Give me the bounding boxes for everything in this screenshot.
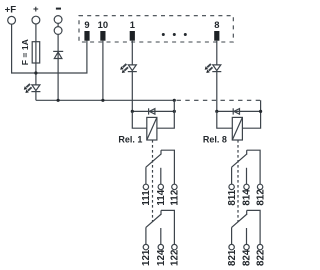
terminal 8 pad [214, 31, 219, 41]
wire terminal 10 down [102, 41, 104, 101]
svg-text:111: 111 [141, 190, 152, 206]
contact set 12x (Rel.1 CO contact 2) [143, 210, 177, 249]
svg-text:F = 1A: F = 1A [20, 39, 30, 65]
svg-text:812: 812 [255, 189, 266, 206]
terminal circle +F [8, 16, 16, 24]
terminal circle + [32, 16, 40, 24]
node diode8 / bus drop [259, 110, 262, 113]
svg-text:824: 824 [242, 249, 253, 266]
terminal 9 pad [84, 31, 89, 41]
LED indicator supply [24, 84, 41, 93]
node terminal1 / diode [131, 110, 134, 113]
wire LED supply to bus [35, 92, 37, 101]
svg-text:822: 822 [255, 249, 266, 266]
svg-text:Rel. 8: Rel. 8 [203, 134, 227, 144]
wire terminal 1 down [131, 41, 133, 65]
wire LED1 to rail [131, 72, 133, 112]
wire +F down [12, 24, 87, 73]
node diode to bus [57, 99, 60, 102]
dashed module box [79, 16, 233, 42]
wire terminal 8 down [216, 41, 218, 65]
terminal 1 pad [130, 31, 135, 41]
bus continuation dashed [177, 99, 261, 101]
svg-text:821: 821 [227, 249, 238, 266]
svg-text:10: 10 [98, 19, 108, 30]
wire LED8 down [216, 72, 218, 112]
negative bus wire [36, 99, 174, 101]
diode V1 (reverse protection) [53, 51, 63, 58]
svg-text:814: 814 [242, 189, 253, 206]
svg-text:811: 811 [227, 189, 238, 205]
svg-text:+: + [33, 4, 39, 15]
wire to coil 1 right [157, 100, 174, 128]
wire to coil 1 left [132, 111, 147, 128]
wire + down to fuse [35, 24, 37, 85]
LED indicator for channel 1 [120, 64, 137, 73]
svg-text:9: 9 [84, 19, 89, 30]
node terminal 10 to bus [101, 99, 104, 102]
node diode / bus drop [173, 110, 176, 113]
svg-text:1: 1 [130, 19, 135, 30]
terminal 10 pad [100, 31, 105, 41]
svg-text:+F: +F [5, 5, 17, 16]
ellipsis dots [162, 33, 165, 36]
mechanical link relay 1 [152, 140, 154, 222]
svg-text:112: 112 [170, 189, 181, 205]
relay coil Rel.8 [232, 117, 242, 140]
terminal circle - upper [54, 16, 62, 24]
svg-text:124: 124 [156, 249, 167, 266]
wire between - circles [57, 23, 59, 26]
svg-text:114: 114 [156, 189, 167, 205]
node terminal8 / diode [215, 110, 218, 113]
freewheel diode relay 8 [217, 108, 261, 114]
terminal - label [56, 8, 61, 10]
svg-text:122: 122 [170, 249, 181, 266]
contact set 82x (Rel.8 CO contact 2) [229, 210, 263, 249]
svg-text:121: 121 [141, 249, 152, 266]
mechanical link relay 8 [237, 140, 239, 222]
svg-text:8: 8 [214, 19, 219, 30]
LED indicator for channel 8 [205, 64, 222, 73]
wire - down [57, 34, 59, 100]
wire bus corner to relay 8 [243, 100, 261, 128]
fuse F1 [32, 42, 40, 63]
node junction + / +F rail [34, 71, 37, 74]
wire to coil 8 left [217, 111, 233, 128]
svg-text:Rel. 1: Rel. 1 [118, 134, 142, 144]
node relay1 to bus [173, 99, 176, 102]
relay coil Rel.1 [147, 117, 157, 140]
freewheel diode relay 1 [132, 108, 174, 114]
contact set 11x (Rel.1 CO contact 1) [143, 150, 177, 189]
terminal circle - lower [54, 27, 62, 35]
contact set 81x (Rel.8 CO contact 1) [229, 150, 263, 189]
